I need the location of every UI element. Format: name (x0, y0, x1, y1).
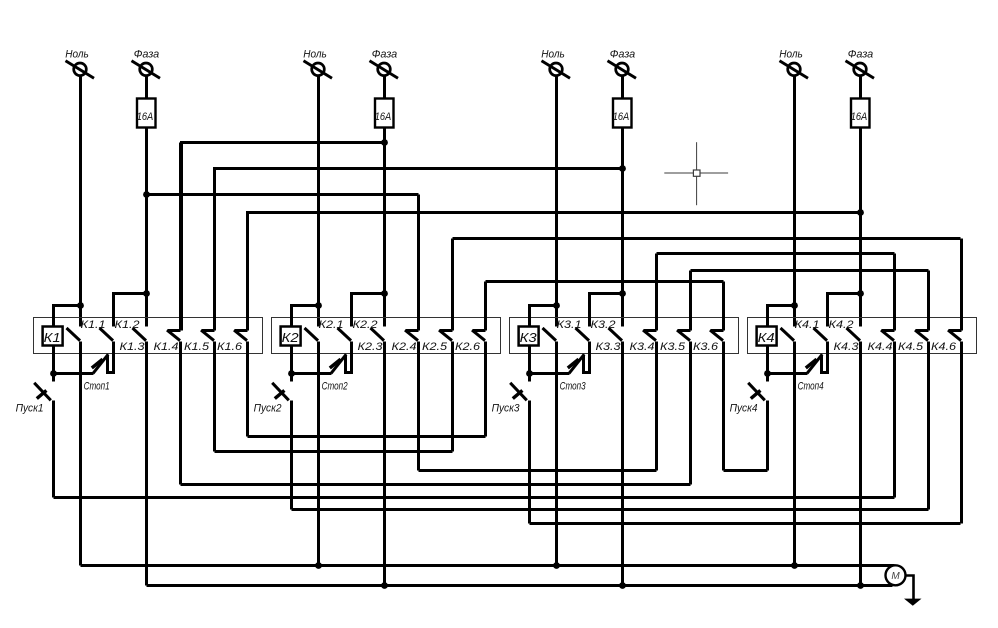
svg-text:Пуск3: Пуск3 (492, 403, 521, 415)
junction phase bus / Фаза4 (857, 582, 864, 589)
contact К3.5 (NC) blade (677, 330, 691, 341)
svg-text:К1.2: К1.2 (115, 319, 140, 331)
wire Ноль3 column (К3.1 upper) (555, 77, 558, 327)
wire К4.4 upper (893, 254, 896, 331)
junction Фаза3 / К1.5 wire (619, 165, 626, 172)
contact К2.1 (NO) blade (305, 328, 319, 341)
wire К3.1 lower to neutral bus (555, 342, 558, 566)
wire К2.2 lower with hook to Стоп2 fixed contact (346, 342, 352, 373)
wire Фаза4 column (К4.3 upper) (859, 129, 862, 327)
wire Фаза4 to fuse FU4 (859, 77, 862, 99)
terminal Фаза2 (input connector) (370, 61, 399, 78)
pushbutton Стоп1 actuator tick (92, 359, 103, 368)
relay K4 contact group outline box (748, 318, 977, 354)
wire К2.4 lower to К3.4 lower (419, 469, 657, 472)
wire coil К2 top to Ноль2 (292, 306, 319, 327)
svg-text:К1.1: К1.1 (81, 319, 106, 331)
wire К1.3 lower to phase bus (145, 342, 148, 586)
contact К2.3 (NO) blade (371, 328, 385, 341)
pushbutton Пуск4 (NO) blade (748, 383, 765, 401)
svg-text:К2.3: К2.3 (358, 341, 384, 353)
contact К4.2 (NO) blade (814, 328, 828, 341)
relay coil К1 (43, 327, 63, 346)
wire К1.6 lower to К2.6 lower (248, 435, 486, 438)
wire Пуск3 lower (528, 401, 531, 524)
wire node A2 stub to Пуск2 (290, 374, 293, 382)
wire Пуск2 lower (290, 401, 293, 510)
svg-text:Пуск1: Пуск1 (16, 403, 44, 415)
svg-text:Фаза: Фаза (372, 48, 398, 60)
wire К3.5 upper to К4.5 upper (691, 269, 929, 272)
wire node A1 to Стоп1 (54, 372, 94, 375)
svg-text:Ноль: Ноль (303, 48, 327, 60)
svg-text:16А: 16А (851, 111, 868, 123)
pushbutton Пуск2 (NO) blade (272, 383, 289, 401)
wire Пуск1 to К4.4 lower (54, 496, 895, 499)
svg-text:Стоп1: Стоп1 (84, 380, 110, 392)
svg-text:К3.2: К3.2 (591, 319, 616, 331)
wire node A3 stub to Пуск3 (528, 374, 531, 382)
svg-text:К4.3: К4.3 (834, 341, 860, 353)
wire node A2 to Стоп2 (292, 372, 332, 375)
wire Фаза3 to К1.5 upper (215, 169, 623, 331)
junction phase bus / Фаза3 (619, 582, 626, 589)
wire К1.2 lower with hook to Стоп1 fixed contact (108, 342, 114, 373)
svg-text:К3.6: К3.6 (693, 341, 719, 353)
contact К1.2 (NO) blade (100, 328, 114, 341)
svg-text:К2: К2 (282, 330, 300, 345)
wire К3.3 lower to phase bus (621, 342, 624, 586)
svg-text:К1.5: К1.5 (184, 341, 210, 353)
wire К1.1 lower to neutral bus (79, 342, 82, 566)
wire К2.5 upper to К4.6 upper (453, 237, 961, 240)
wire К4.5 lower (927, 342, 930, 510)
junction neutral bus / Ноль3 (553, 562, 560, 569)
contact К2.6 (NC) blade (472, 330, 486, 341)
svg-text:К1.3: К1.3 (120, 341, 146, 353)
wire К1.6 lower (246, 342, 249, 437)
pushbutton Стоп3 (NC) blade (569, 354, 584, 373)
wire К1.4 lower (179, 342, 182, 485)
svg-text:К2.6: К2.6 (455, 341, 481, 353)
contact К4.5 (NC) blade (915, 330, 929, 341)
pushbutton Пуск1 actuator tick (37, 390, 47, 398)
wire Фаза3 to fuse FU3 (621, 77, 624, 99)
svg-text:К1: К1 (44, 330, 61, 345)
svg-text:Ноль: Ноль (541, 48, 565, 60)
wire Фаза2 tap to К2.2 upper (352, 294, 385, 327)
junction neutral bus / Ноль4 (791, 562, 798, 569)
relay K3 contact group outline box (510, 318, 739, 354)
contact К1.4 (NC) blade (167, 330, 181, 341)
wire К1.4 upper (179, 143, 182, 331)
terminal Ноль1 (input connector) (66, 61, 95, 78)
svg-text:К4.4: К4.4 (868, 341, 893, 353)
fuse FU2 16A (375, 99, 394, 128)
wire К3.6 lower (722, 342, 725, 471)
junction Фаза4 tap (857, 290, 864, 297)
junction Фаза2 tap (381, 290, 388, 297)
svg-text:Фаза: Фаза (610, 48, 636, 60)
relay coil К3 (519, 327, 539, 346)
wire motor M1 to ground (907, 576, 914, 600)
wire К3.5 lower (689, 342, 692, 485)
wire К4.3 lower to phase bus (859, 342, 862, 586)
svg-text:К2.4: К2.4 (392, 341, 417, 353)
ground (904, 599, 922, 606)
pushbutton Стоп3 actuator tick (568, 359, 579, 368)
svg-text:Пуск4: Пуск4 (730, 403, 758, 415)
pushbutton Стоп2 actuator tick (330, 359, 341, 368)
contact К4.6 (NC) blade (948, 330, 962, 341)
junction node A2 (288, 370, 295, 377)
wire Ноль1 column (К1.1 upper) (79, 77, 82, 327)
wire К3.2 lower with hook to Стоп3 fixed contact (584, 342, 590, 373)
contact К2.4 (NC) blade (405, 330, 419, 341)
relay coil К4 (757, 327, 777, 346)
fuse FU3 16A (613, 99, 632, 128)
wire Пуск3 to К4.6 lower (530, 522, 961, 525)
neutral bus К1.1 lower to motor (81, 564, 895, 567)
svg-text:Фаза: Фаза (848, 48, 874, 60)
wire Фаза3 column (К3.3 upper) (621, 129, 624, 327)
junction coil К3 / Ноль3 (553, 302, 560, 309)
wire coil К1 bottom to node A1 (52, 347, 55, 374)
wire Фаза1 tap to К1.2 upper (114, 294, 147, 327)
terminal Фаза4 (input connector) (846, 61, 875, 78)
junction coil К2 / Ноль2 (315, 302, 322, 309)
svg-text:К3.3: К3.3 (596, 341, 622, 353)
phase bus К1.3 lower to motor (147, 584, 893, 587)
svg-text:К2.1: К2.1 (319, 319, 344, 331)
motor M1 (886, 565, 906, 585)
wire К4.6 lower (960, 342, 963, 524)
wire К2.4 upper (417, 195, 420, 331)
contact К1.3 (NO) blade (133, 328, 147, 341)
contact К4.3 (NO) blade (847, 328, 861, 341)
wire К1.5 lower to К2.5 lower (215, 450, 453, 453)
svg-text:Ноль: Ноль (65, 48, 89, 60)
svg-text:16А: 16А (613, 111, 630, 123)
wire node A4 to Стоп4 (768, 372, 808, 375)
contact К3.1 (NO) blade (543, 328, 557, 341)
svg-text:К4.1: К4.1 (795, 319, 820, 331)
svg-text:К2.2: К2.2 (353, 319, 378, 331)
wire Ноль2 column (К2.1 upper) (317, 77, 320, 327)
wire coil К1 top to Ноль1 (54, 306, 81, 327)
contact К1.5 (NC) blade (201, 330, 215, 341)
svg-text:Стоп4: Стоп4 (798, 380, 824, 392)
wire node A4 stub to Пуск4 (766, 374, 769, 382)
pushbutton Стоп2 (NC) blade (331, 354, 346, 373)
junction coil К4 / Ноль4 (791, 302, 798, 309)
svg-text:К3.4: К3.4 (630, 341, 655, 353)
pushbutton Пуск1 (NO) blade (34, 383, 51, 401)
wire Пуск2 to К4.5 lower (292, 508, 929, 511)
wire Фаза3 tap to К3.2 upper (590, 294, 623, 327)
wire К3.6 upper (722, 282, 725, 331)
svg-text:К4.5: К4.5 (898, 341, 924, 353)
cursor crosshair (664, 142, 728, 205)
wire К3.4 upper (655, 254, 658, 331)
wire К4.1 lower to neutral bus (793, 342, 796, 566)
wire К3.4 lower (655, 342, 658, 471)
fuse FU4 16A (851, 99, 870, 128)
junction Фаза3 tap (619, 290, 626, 297)
wire Фаза1 column (К1.3 upper) (145, 129, 148, 327)
wire node A1 stub to Пуск1 (52, 374, 55, 382)
svg-text:Ноль: Ноль (779, 48, 803, 60)
wire К2.5 upper (451, 239, 454, 331)
wire К2.6 upper to К3.6 upper (486, 280, 724, 283)
junction Фаза2 / К1.4 wire (381, 139, 388, 146)
svg-text:К3.5: К3.5 (660, 341, 686, 353)
wire Фаза4 to К1.6 upper (248, 213, 861, 331)
wire К1.4 lower to К3.5 lower (181, 483, 691, 486)
svg-text:Пуск2: Пуск2 (254, 403, 282, 415)
relay coil К2 (281, 327, 301, 346)
wire К4.5 upper (927, 271, 930, 331)
relay K1 contact group outline box (34, 318, 263, 354)
wire К1.5 upper (213, 169, 216, 331)
wire Фаза1 to fuse FU1 (145, 77, 148, 99)
wire К2.4 lower (417, 342, 420, 471)
pushbutton Стоп4 (NC) blade (807, 354, 822, 373)
svg-text:К4: К4 (758, 330, 775, 345)
junction coil К1 / Ноль1 (77, 302, 84, 309)
svg-text:16А: 16А (375, 111, 392, 123)
pushbutton Пуск2 actuator tick (275, 390, 285, 398)
junction Фаза4 / К1.6 wire (857, 209, 864, 216)
contact К2.2 (NO) blade (338, 328, 352, 341)
contact К3.3 (NO) blade (609, 328, 623, 341)
svg-text:К3: К3 (520, 330, 538, 345)
svg-text:К1.4: К1.4 (154, 341, 179, 353)
wire К2.6 upper (484, 282, 487, 331)
svg-text:М: М (891, 571, 900, 582)
junction neutral bus / Ноль2 (315, 562, 322, 569)
svg-text:К3.1: К3.1 (557, 319, 582, 331)
relay K2 contact group outline box (272, 318, 501, 354)
pushbutton Стоп1 (NC) blade (93, 354, 108, 373)
contact К3.6 (NC) blade (710, 330, 724, 341)
wire Фаза1 to К2.4 upper (147, 193, 419, 196)
contact К3.4 (NC) blade (643, 330, 657, 341)
svg-text:К1.6: К1.6 (217, 341, 243, 353)
wire coil К4 bottom to node A4 (766, 347, 769, 374)
terminal Фаза1 (input connector) (132, 61, 161, 78)
wire К3.6 lower to Пуск4 (724, 469, 768, 472)
contact К1.1 (NO) blade (67, 328, 81, 341)
wire coil К3 bottom to node A3 (528, 347, 531, 374)
junction Фаза1 / К2.4 wire (143, 191, 150, 198)
wire coil К2 bottom to node A2 (290, 347, 293, 374)
svg-text:Фаза: Фаза (134, 48, 160, 60)
pushbutton Пуск3 (NO) blade (510, 383, 527, 401)
wire Фаза2 column (К2.3 upper) (383, 129, 386, 327)
pushbutton Пуск3 actuator tick (513, 390, 523, 398)
contact К4.4 (NC) blade (881, 330, 895, 341)
wire node A3 to Стоп3 (530, 372, 570, 375)
pushbutton Пуск4 actuator tick (751, 390, 761, 398)
wire coil К3 top to Ноль3 (530, 306, 557, 327)
terminal Ноль3 (input connector) (542, 61, 571, 78)
wire Фаза4 tap to К4.2 upper (828, 294, 861, 327)
terminal Ноль4 (input connector) (780, 61, 809, 78)
fuse FU1 16A (137, 99, 156, 128)
wire К3.5 upper (689, 271, 692, 331)
wire К2.1 lower to neutral bus (317, 342, 320, 566)
junction node A4 (764, 370, 771, 377)
svg-text:К4.2: К4.2 (829, 319, 854, 331)
wire Пуск4 lower (766, 401, 769, 471)
wire К3.4 upper to К4.4 upper (657, 252, 895, 255)
wire К2.6 lower (484, 342, 487, 437)
terminal Ноль2 (input connector) (304, 61, 333, 78)
wire К2.5 lower (451, 342, 454, 452)
wire Пуск1 lower (52, 401, 55, 498)
junction phase bus / Фаза2 (381, 582, 388, 589)
wire coil К4 top to Ноль4 (768, 306, 795, 327)
pushbutton Стоп4 actuator tick (806, 359, 817, 368)
terminal Фаза3 (input connector) (608, 61, 637, 78)
wire Фаза2 to fuse FU2 (383, 77, 386, 99)
wire К4.6 upper (960, 239, 963, 331)
contact К3.2 (NO) blade (576, 328, 590, 341)
wire К1.6 upper (246, 213, 249, 331)
contact К4.1 (NO) blade (781, 328, 795, 341)
svg-text:К4.6: К4.6 (931, 341, 957, 353)
junction node A1 (50, 370, 57, 377)
wire К4.2 lower with hook to Стоп4 fixed contact (822, 342, 828, 373)
svg-text:16А: 16А (137, 111, 154, 123)
junction node A3 (526, 370, 533, 377)
contact К2.5 (NC) blade (439, 330, 453, 341)
wire К4.4 lower (893, 342, 896, 498)
svg-text:К2.5: К2.5 (422, 341, 448, 353)
junction Фаза1 tap (143, 290, 150, 297)
svg-text:Стоп3: Стоп3 (560, 380, 587, 392)
wire К2.3 lower to phase bus (383, 342, 386, 586)
wire К1.5 lower (213, 342, 216, 452)
wire Фаза2 to К1.4 upper (182, 143, 385, 331)
contact К1.6 (NC) blade (234, 330, 248, 341)
wire Ноль4 column (К4.1 upper) (793, 77, 796, 327)
svg-text:Стоп2: Стоп2 (322, 380, 348, 392)
